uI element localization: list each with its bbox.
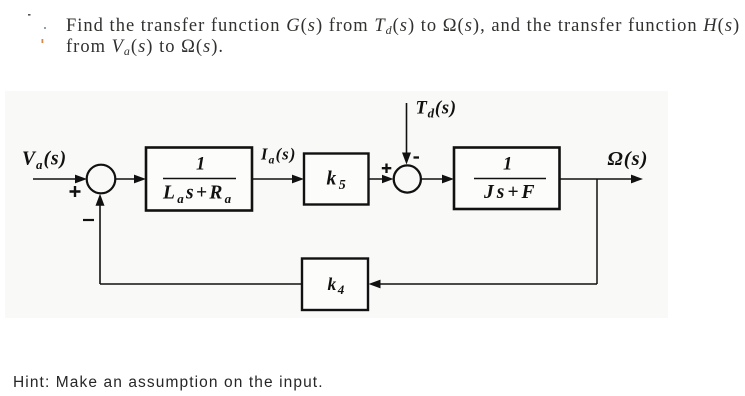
scan speck dark <box>28 14 31 16</box>
wire Td input vertical <box>406 103 408 155</box>
fraction bar G1 <box>163 178 236 180</box>
svg-text:1: 1 <box>503 155 512 175</box>
fraction bar G2 <box>474 178 546 180</box>
scan speck blue <box>44 27 46 29</box>
wire output from G2 <box>560 178 635 180</box>
wire k5 to S2 <box>369 178 387 180</box>
hint text <box>13 374 324 392</box>
plus sign at S1 <box>70 186 81 197</box>
scan speck orange <box>42 39 44 43</box>
svg-text:Td(s): Td(s) <box>416 99 457 121</box>
svg-text:Las+Ra: Las+Ra <box>162 183 233 207</box>
problem statement text <box>66 16 745 59</box>
svg-text:Ω(s): Ω(s) <box>608 148 649 170</box>
block k4 <box>302 259 368 311</box>
block G2 1/(Js+F) <box>454 148 560 210</box>
scan paper background <box>5 91 668 318</box>
summing junction S1 <box>87 165 116 194</box>
summing junction S2 <box>394 165 421 192</box>
wire input Va <box>33 178 79 180</box>
wire feedback right horizontal <box>377 283 597 285</box>
svg-text:Va(s): Va(s) <box>22 149 67 173</box>
minus sign at S2 <box>414 156 420 158</box>
svg-text:1: 1 <box>196 155 205 175</box>
minus sign at S1 <box>83 219 94 221</box>
block k5 <box>304 154 369 205</box>
wire S1 to block G1 <box>115 178 137 180</box>
wire S2 to block G2 <box>421 178 445 180</box>
wire feedback left vertical <box>99 203 101 284</box>
svg-text:Js+F: Js+F <box>483 182 537 203</box>
wire feedback left horizontal <box>100 283 302 285</box>
node takeoff junction <box>596 179 598 284</box>
plus sign at S2 <box>382 164 392 174</box>
block G1 1/(La s+Ra) <box>146 148 252 211</box>
wire G1 to k5 <box>252 178 295 180</box>
svg-text:Ia(s): Ia(s) <box>260 145 297 167</box>
